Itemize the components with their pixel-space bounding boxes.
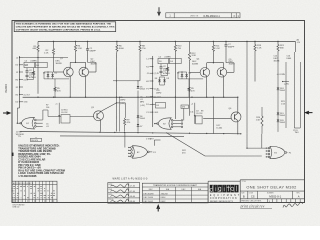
svg-text:1MFD: 1MFD: [120, 99, 126, 101]
svg-text:B: B: [243, 195, 245, 199]
svg-text:print circuit rev: print circuit rev: [240, 205, 265, 209]
svg-text:TRANSISTOR & DIODE CONVERSION: TRANSISTOR & DIODE CONVERSION CHART: [153, 184, 198, 187]
svg-text:ONE SHOT DELAY M302: ONE SHOT DELAY M302: [246, 185, 296, 190]
svg-text:D1: D1: [43, 73, 45, 75]
svg-text:TITLE: TITLE: [242, 181, 246, 183]
svg-text:D3: D3: [25, 65, 27, 67]
svg-text:1.5K: 1.5K: [257, 48, 262, 50]
svg-text:+5: +5: [191, 104, 193, 106]
svg-text:IN-2019: IN-2019: [5, 83, 8, 93]
svg-text:THIS SCHEMATIC IS FURNISHED ON: THIS SCHEMATIC IS FURNISHED ONLY FOR TES…: [16, 23, 112, 26]
svg-text:3009B: 3009B: [192, 63, 199, 65]
svg-text:3: 3: [269, 201, 270, 203]
svg-text:THO: THO: [295, 132, 300, 134]
svg-text:CLOCK: CLOCK: [61, 112, 68, 114]
svg-text:1.5K: 1.5K: [44, 53, 49, 55]
svg-text:1/ D-DEC3009B: 1/ D-DEC3009B: [18, 175, 36, 178]
svg-text:(+3V): (+3V): [284, 84, 289, 86]
svg-text:E Q U I P M E N T: E Q U I P M E N T: [210, 195, 240, 197]
svg-text:R24 470: R24 470: [31, 140, 38, 142]
svg-text:3000: 3000: [119, 48, 125, 50]
svg-text:(+3V): (+3V): [140, 105, 145, 107]
svg-text:1.5K: 1.5K: [281, 103, 286, 105]
svg-text:1 START: 1 START: [146, 137, 154, 140]
svg-text:47MFD: 47MFD: [163, 73, 170, 75]
svg-text:(0) OUT: (0) OUT: [154, 96, 161, 98]
svg-text:GND: GND: [154, 112, 159, 114]
svg-text:47MFD: 47MFD: [29, 77, 36, 79]
svg-text:D664: D664: [140, 89, 146, 91]
svg-text:(1) OUT: (1) OUT: [24, 94, 31, 96]
svg-text:REV.: REV.: [297, 192, 301, 194]
svg-text:1.5K: 1.5K: [78, 48, 83, 50]
svg-text:+5: +5: [55, 104, 57, 106]
svg-text:SIZE: SIZE: [241, 192, 244, 194]
svg-text:+5 CONN: +5 CONN: [277, 74, 286, 76]
svg-text:4-7-64: 4-7-64: [130, 186, 135, 188]
svg-text:D2: D2: [55, 73, 57, 75]
svg-text:D9: D9: [167, 78, 169, 80]
svg-text:MFD: MFD: [140, 101, 145, 103]
svg-text:DRB 102: DRB 102: [13, 207, 20, 209]
svg-text:DEC: DEC: [149, 189, 154, 191]
svg-text:E3: E3: [157, 105, 159, 107]
svg-text:D2: D2: [189, 73, 191, 75]
svg-text:D3: D3: [159, 61, 161, 63]
svg-text:D8: D8: [155, 78, 157, 80]
svg-text:470: 470: [182, 107, 185, 109]
svg-text:M302-0-1: M302-0-1: [269, 194, 281, 198]
svg-text:680PF: 680PF: [90, 50, 97, 52]
svg-text:3009B: 3009B: [56, 63, 63, 65]
svg-text:CS: CS: [251, 195, 255, 199]
svg-text:.01MFD: .01MFD: [164, 57, 171, 59]
svg-text:D664: D664: [140, 118, 146, 120]
svg-text:.01: .01: [46, 126, 49, 128]
svg-text:PRINTED CIRCUIT REV.: PRINTED CIRCUIT REV.: [241, 201, 262, 203]
svg-text:DEC: DEC: [182, 189, 187, 191]
svg-text:680PF: 680PF: [228, 46, 235, 48]
svg-text:4-8-64: 4-8-64: [130, 201, 135, 203]
svg-text:USED ON: USED ON: [190, 15, 199, 17]
svg-text:3.3K: 3.3K: [192, 55, 197, 57]
svg-text:D-BS-M302-0-1: D-BS-M302-0-1: [204, 16, 221, 18]
svg-text:(+3V): (+3V): [120, 103, 125, 105]
svg-text:WAFE LIST A-PL-M302-0-0: WAFE LIST A-PL-M302-0-0: [113, 178, 149, 181]
svg-text:C O R P O R A T I O N: C O R P O R A T I O N: [210, 197, 237, 200]
svg-text:CODE: CODE: [249, 192, 253, 194]
svg-text:D664: D664: [280, 115, 286, 117]
svg-text:CLOCK: CLOCK: [196, 113, 203, 115]
svg-text:CIRCUITS ARE PROPRIETARY IN NA: CIRCUITS ARE PROPRIETARY IN NATURE AND S…: [16, 26, 115, 29]
svg-text:D-662: D-662: [217, 128, 224, 130]
svg-text:.01MFD: .01MFD: [30, 61, 37, 63]
svg-text:4-7-64: 4-7-64: [130, 191, 135, 193]
svg-text:A: A: [298, 195, 300, 199]
svg-text:100: 100: [46, 107, 49, 109]
svg-text:3009B: 3009B: [274, 60, 280, 62]
svg-text:DEC D662: DEC D662: [143, 201, 153, 203]
svg-text:COPYRIGHT 1964 BY DIGITAL EQUI: COPYRIGHT 1964 BY DIGITAL EQUIPMENT CORP…: [16, 28, 101, 31]
svg-text:D1: D1: [177, 73, 179, 75]
svg-text:GND: GND: [24, 102, 29, 104]
svg-text:1.5K: 1.5K: [215, 48, 220, 50]
svg-text:D664: D664: [280, 90, 286, 92]
svg-text:1.5K: 1.5K: [256, 119, 261, 121]
svg-text:(1) IN: (1) IN: [154, 73, 159, 75]
svg-text:4-8-64: 4-8-64: [130, 196, 135, 198]
svg-text:D664: D664: [280, 122, 286, 124]
svg-text:1MFD: 1MFD: [156, 93, 162, 95]
